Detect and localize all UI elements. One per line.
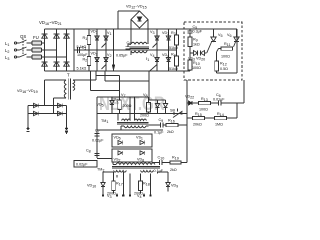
bridge VD16-19 [28, 103, 67, 128]
svg-text:2kΩ: 2kΩ [170, 168, 177, 172]
thyristor V2 [102, 50, 109, 71]
svg-text:QS: QS [20, 34, 26, 39]
resistor R14 [215, 116, 238, 119]
wire T secondary bottom [91, 71, 120, 91]
wire mid node right [157, 49, 177, 51]
terminal L2 [14, 49, 19, 51]
wire [27, 56, 33, 58]
wire C3 right [121, 49, 157, 51]
svg-text:0.02μF: 0.02μF [92, 139, 104, 143]
thyristor V4 [152, 50, 159, 71]
svg-text:20kΩ: 20kΩ [193, 123, 202, 127]
svg-text:0.02μF: 0.02μF [76, 163, 88, 167]
wire phase a [42, 42, 45, 44]
thyristor V1 [102, 29, 109, 50]
capacitor C1 [74, 47, 80, 53]
svg-text:2kΩ: 2kΩ [167, 130, 174, 134]
resistor R9 [188, 37, 192, 51]
svg-text:51kΩ: 51kΩ [169, 67, 178, 71]
transistor V6 [234, 29, 240, 47]
load line with arrow [112, 29, 114, 71]
diode VD3 [166, 29, 170, 50]
wire V4 gate down [149, 69, 152, 100]
top rail [45, 28, 238, 30]
zener VD5 [110, 97, 114, 113]
svg-text:200Ω: 200Ω [123, 104, 132, 108]
resistor R13 [199, 101, 219, 104]
left vertical [73, 29, 75, 71]
fuse FU row [32, 41, 42, 59]
thyristor V3 [153, 29, 160, 50]
capacitor C6 [219, 100, 238, 105]
svg-text:5.1kΩ: 5.1kΩ [77, 45, 87, 49]
wire diamond top [118, 11, 140, 29]
wire risers TM1 sec [130, 97, 135, 121]
wire T primary top [45, 80, 67, 106]
wire T secondary top [73, 71, 96, 80]
output terminal plus [27, 128, 30, 132]
diode VD21 [163, 100, 167, 114]
zener VS4 [155, 100, 159, 114]
svg-text:SB: SB [170, 109, 175, 113]
svg-text:T: T [67, 73, 70, 78]
wire gates up [119, 76, 121, 98]
svg-text:0.01μF: 0.01μF [213, 98, 225, 102]
bus y130 [97, 129, 163, 131]
svg-text:5.1kΩ: 5.1kΩ [77, 67, 87, 71]
resistor R18 [139, 174, 143, 194]
wire aux [96, 71, 149, 81]
svg-text:FU: FU [33, 35, 39, 40]
transformer TM2 [112, 162, 160, 172]
bus y113 [97, 113, 187, 115]
resistor R11 [207, 47, 233, 53]
resistor R3 [175, 29, 179, 50]
svg-text:100Ω: 100Ω [192, 66, 201, 70]
svg-text:0.65μF: 0.65μF [116, 54, 128, 58]
wire diamond right down [147, 20, 149, 45]
resistor R10 [188, 53, 192, 71]
svg-text:1MΩ: 1MΩ [215, 123, 223, 127]
resistor R2 [87, 50, 91, 71]
wire box bottom [217, 29, 238, 73]
right vertical [186, 118, 188, 163]
gate stubs [102, 172, 151, 196]
resistor R1 [87, 29, 91, 50]
snubber2 [152, 160, 187, 165]
svg-text:ℓ1: ℓ1 [146, 57, 149, 62]
diamond bridge VD12~VD15 [131, 11, 148, 28]
transistor V5 [207, 29, 216, 53]
svg-text:100Ω: 100Ω [221, 55, 230, 59]
capacitor C3 [126, 44, 132, 50]
wire phase b [42, 49, 57, 51]
svg-text:1kΩ: 1kΩ [193, 43, 200, 47]
resistor R12 [215, 49, 219, 74]
svg-text:100Ω: 100Ω [199, 108, 208, 112]
wire l1 right to V3 node [147, 49, 157, 51]
wire phase c [42, 56, 67, 58]
resistor R4 [175, 50, 179, 71]
svg-text:200Ω: 200Ω [140, 114, 149, 118]
junction dots midline [88, 49, 169, 51]
diode VD2 [95, 50, 99, 71]
zener VD10 [101, 172, 114, 192]
svg-text:51kΩ: 51kΩ [169, 46, 178, 50]
bottom rail [45, 70, 191, 72]
svg-text:0.5Ω: 0.5Ω [220, 67, 228, 71]
capacitor C5 [188, 29, 193, 37]
wire diamond left down [130, 20, 132, 45]
capacitor C7 [94, 134, 99, 136]
snubber C9 R16 [149, 122, 188, 127]
diode VD1 [95, 29, 99, 50]
output terminal minus [65, 128, 67, 134]
junction dots [111, 96, 148, 98]
transformer T [64, 79, 75, 100]
svg-text:100μF: 100μF [77, 53, 88, 57]
zener VD9 [158, 172, 171, 192]
diode VD22 [187, 80, 199, 118]
resistor R15 [187, 116, 215, 119]
resistor R17 [112, 174, 116, 194]
svg-text:0.1μF: 0.1μF [154, 131, 164, 135]
bridge VD16~VD21 [42, 29, 70, 71]
wire T primary bottom [54, 98, 67, 114]
svg-text:0.1μF: 0.1μF [154, 169, 164, 173]
wire [27, 49, 33, 51]
button SB [149, 100, 183, 118]
svg-text:0.3μF: 0.3μF [193, 30, 203, 34]
diode VS3 [190, 51, 198, 56]
transformer l1 [124, 42, 149, 55]
wire right join [237, 80, 244, 118]
diode VD4 [166, 50, 170, 71]
wire [27, 42, 33, 44]
terminal L1 [14, 42, 19, 44]
transformer TM1 [117, 114, 149, 131]
dashed box [184, 22, 242, 80]
resistor R7 [147, 97, 151, 114]
switch QS [20, 39, 27, 58]
diode box 1 [112, 134, 152, 147]
mid node line [74, 49, 121, 51]
terminal L3 [14, 56, 19, 58]
capacitor C8 box label [74, 153, 112, 167]
resistor R6 [118, 97, 122, 113]
diode VD20 [201, 51, 207, 56]
diode box 2 [112, 149, 152, 162]
firing section left bus [97, 97, 148, 158]
